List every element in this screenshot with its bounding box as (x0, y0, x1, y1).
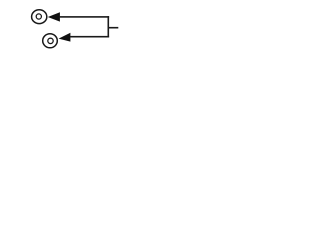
arrowhead into terminal J1 (48, 12, 60, 21)
terminal J2 (circle with center dot, bottom-left) (43, 34, 58, 48)
arrowhead into terminal J2 (59, 33, 71, 42)
wire vertical bus segment (108, 16, 110, 37)
terminal J1 (circle with center dot, top-left) (32, 10, 47, 24)
wire stub to external node (right) (108, 27, 118, 29)
wire from arrowhead J1 to right vertical bus (59, 16, 109, 18)
wire from right vertical bus to arrowhead J2 (70, 36, 109, 38)
